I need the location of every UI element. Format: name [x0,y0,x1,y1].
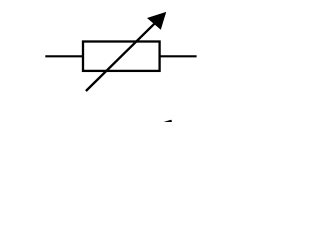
arrowhead [147,12,166,30]
variable-adjustment arrow shaft [86,13,165,91]
resistor body (variable resistor rectangle) [83,42,160,71]
partial label fragment (cropped) [164,120,172,122]
wire: left lead [45,55,83,57]
wire: right lead [160,55,197,57]
